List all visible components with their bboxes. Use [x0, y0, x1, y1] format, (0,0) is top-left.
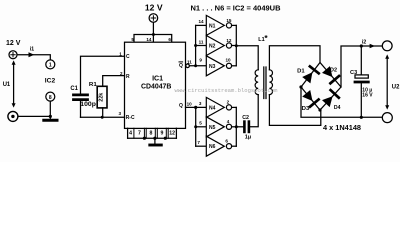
svg-text:12 V: 12 V — [6, 40, 21, 47]
svg-text:100p: 100p — [80, 102, 96, 108]
junction (pin10 branch) — [194, 106, 197, 109]
svg-text:N3: N3 — [209, 64, 216, 70]
wire (C3 riser bottom) — [360, 84, 362, 118]
inverter N3 — [206, 56, 231, 76]
junction (ground tie) — [49, 115, 52, 118]
svg-text:7: 7 — [138, 131, 141, 137]
svg-text:5: 5 — [199, 121, 202, 126]
junction (C3 top) — [360, 44, 363, 47]
svg-text:D1: D1 — [297, 68, 305, 74]
svg-text:3: 3 — [199, 101, 202, 106]
wire (pin 1 to C1) — [81, 56, 125, 93]
resistor R1 — [97, 86, 107, 108]
svg-text:D2: D2 — [330, 67, 337, 73]
svg-text:9: 9 — [199, 57, 202, 62]
svg-text:N6: N6 — [209, 144, 216, 150]
IC1 box — [125, 42, 186, 128]
svg-text:6: 6 — [225, 139, 228, 144]
junction (N5 out / C2) — [235, 125, 238, 128]
inverter N2 — [206, 36, 231, 56]
wire (N2 out stub) — [232, 45, 237, 47]
diode bridge frame — [301, 63, 341, 111]
junction (N3 input / pin 11 wire) — [194, 64, 197, 67]
svg-text:9: 9 — [160, 131, 163, 137]
svg-text:D3: D3 — [302, 106, 310, 112]
transformer L1 secondary winding — [269, 70, 272, 95]
capacitor C2 — [244, 122, 249, 132]
terminal + (12V input, top-left) — [9, 51, 17, 59]
wire (top input bus) — [195, 25, 197, 65]
junction (N2 out) — [235, 44, 238, 47]
current arrow i2 — [370, 44, 375, 48]
wire (N6 input stub) — [196, 145, 207, 147]
diode D2 — [322, 66, 339, 83]
inverter N5 — [206, 117, 231, 137]
svg-text:3: 3 — [118, 111, 121, 116]
wire (N2 input stub) — [196, 45, 207, 47]
svg-text:5: 5 — [131, 37, 134, 42]
svg-text:4 x 1N4148: 4 x 1N4148 — [323, 125, 361, 132]
wire (N4 out stub) — [232, 106, 237, 108]
svg-text:R-C: R-C — [126, 115, 135, 121]
svg-text:4: 4 — [227, 119, 230, 124]
svg-text:8: 8 — [149, 131, 152, 137]
wire (top output bus) — [235, 25, 237, 65]
wire (bus to C2) — [236, 126, 243, 128]
pin 11 bubble — [186, 64, 190, 68]
svg-text:C2: C2 — [242, 115, 249, 121]
wire (from + terminal to IC2 pin 1) — [17, 55, 50, 60]
svg-text:N5: N5 — [209, 125, 216, 131]
junction (bridge bottom corner) — [318, 108, 321, 111]
voltage arrow U1 — [13, 63, 15, 106]
svg-text:1: 1 — [49, 63, 52, 69]
wire (N5 out stub) — [232, 126, 237, 128]
wire (N3 out stub) — [232, 65, 237, 67]
wire (N6 out stub) — [232, 145, 237, 147]
diode D4 — [322, 90, 339, 107]
wire (N1 out stub) — [232, 24, 237, 26]
ground (left) — [44, 119, 57, 122]
capacitor C1 — [74, 95, 88, 100]
current arrow i1 — [29, 52, 35, 57]
svg-text:C1: C1 — [70, 86, 78, 92]
ground (IC1) — [150, 144, 162, 147]
svg-text:N4: N4 — [209, 105, 216, 111]
wire (loop pin 5 to pin 6 over IC1) — [134, 35, 172, 43]
svg-text:R: R — [126, 74, 130, 80]
svg-text:U2: U2 — [392, 83, 400, 90]
svg-text:Q: Q — [179, 103, 183, 109]
output terminal bottom right — [382, 113, 392, 123]
wire (N5 input stub) — [196, 126, 207, 128]
wire (R1 bottom to pin 3 rail) — [102, 108, 104, 117]
capacitor C3 (electrolytic) — [355, 75, 368, 82]
wire (C3 riser top) — [360, 46, 362, 75]
wire (secondary top to bridge top) — [269, 46, 320, 70]
wire (N1 input stub) — [196, 24, 207, 26]
svg-text:4: 4 — [129, 131, 132, 137]
wire (12V down to pin 14) — [152, 22, 154, 42]
junction (C3 bottom) — [360, 116, 363, 119]
svg-text:www.circuitsstream.blogspot.co: www.circuitsstream.blogspot.com — [175, 87, 279, 94]
svg-text:10: 10 — [187, 102, 193, 107]
svg-text:C3: C3 — [350, 70, 357, 76]
svg-text:22k: 22k — [98, 93, 104, 102]
svg-text:8: 8 — [49, 95, 52, 101]
svg-text:i2: i2 — [362, 40, 367, 46]
inverter N4 — [206, 97, 231, 117]
svg-text:16 V: 16 V — [362, 93, 373, 99]
svg-text:C: C — [126, 54, 130, 60]
output terminal top right — [382, 41, 392, 51]
svg-text:6: 6 — [168, 37, 171, 42]
svg-text:15: 15 — [226, 18, 232, 23]
svg-text:12: 12 — [226, 38, 232, 43]
inverter N1 — [206, 15, 231, 35]
wire (bottom input bus) — [195, 107, 197, 146]
junction (bridge left corner) — [299, 85, 302, 88]
voltage arrow U2 — [386, 57, 388, 108]
wire (bus to ground) — [154, 138, 156, 144]
pin circle 8 of IC2 — [46, 92, 55, 101]
svg-text:12 V: 12 V — [145, 4, 164, 13]
svg-text:12: 12 — [169, 131, 175, 137]
junction (N2 input) — [194, 44, 197, 47]
transformer core — [264, 67, 266, 99]
junction (12V / pin5-pin6 loop) — [152, 33, 155, 36]
svg-text:IC2: IC2 — [45, 78, 56, 85]
svg-text:N2: N2 — [209, 44, 216, 50]
svg-text:D4: D4 — [334, 105, 341, 111]
junction dots on bus — [143, 137, 146, 140]
svg-text:14: 14 — [146, 37, 152, 42]
wire (bridge left corner to minus rail) — [301, 87, 382, 117]
svg-text:2: 2 — [227, 99, 230, 104]
wire (C1 bottom) — [80, 101, 82, 117]
transformer L1 primary winding — [255, 70, 258, 95]
wire (pin 8 down to ground) — [49, 101, 51, 119]
wire (pin 11 to inverter inputs) — [189, 65, 206, 67]
supply terminal + 12 V (top middle) — [149, 14, 158, 23]
svg-text:N1: N1 — [209, 23, 216, 29]
svg-text:Q: Q — [179, 63, 183, 69]
wire (bottom output bus) — [235, 107, 237, 146]
junction (N5 input) — [194, 125, 197, 128]
IC1 bottom pin boxes — [128, 128, 177, 138]
wire (pin 3 rail) — [81, 116, 125, 118]
svg-text:10: 10 — [225, 58, 231, 63]
wire (pin 10 to N4) — [186, 106, 207, 108]
inverter N6 — [206, 136, 231, 156]
wire (secondary bottom to bridge bottom) — [269, 95, 320, 126]
svg-text:R1: R1 — [89, 82, 98, 88]
svg-text:7: 7 — [197, 140, 200, 145]
wire (C2 to transformer primary bottom) — [250, 95, 258, 127]
terminal 0 (bottom-left, circle with dot) — [8, 111, 18, 121]
svg-text:N1 . . . N6 = IC2 = 4049UB: N1 . . . N6 = IC2 = 4049UB — [191, 3, 281, 12]
wire (bridge right corner to plus rail) — [341, 46, 382, 87]
wire (bottom pin bus) — [128, 137, 177, 139]
svg-text:14: 14 — [198, 19, 204, 24]
svg-text:1µ: 1µ — [245, 135, 251, 141]
svg-text:CD4047B: CD4047B — [141, 81, 171, 90]
wire (bus to transformer primary top) — [236, 46, 258, 70]
junction (R1/pin3 rail) — [101, 116, 104, 119]
diode D1 — [302, 66, 319, 83]
wire (pin 2 to R1) — [103, 76, 125, 87]
diode D3 — [302, 90, 318, 107]
svg-text:U1: U1 — [3, 81, 11, 88]
wire (0 terminal to ground) — [18, 115, 50, 117]
svg-text:i1: i1 — [30, 46, 34, 52]
pin circle 1 of IC2 — [46, 60, 55, 69]
svg-text:11: 11 — [199, 39, 204, 44]
